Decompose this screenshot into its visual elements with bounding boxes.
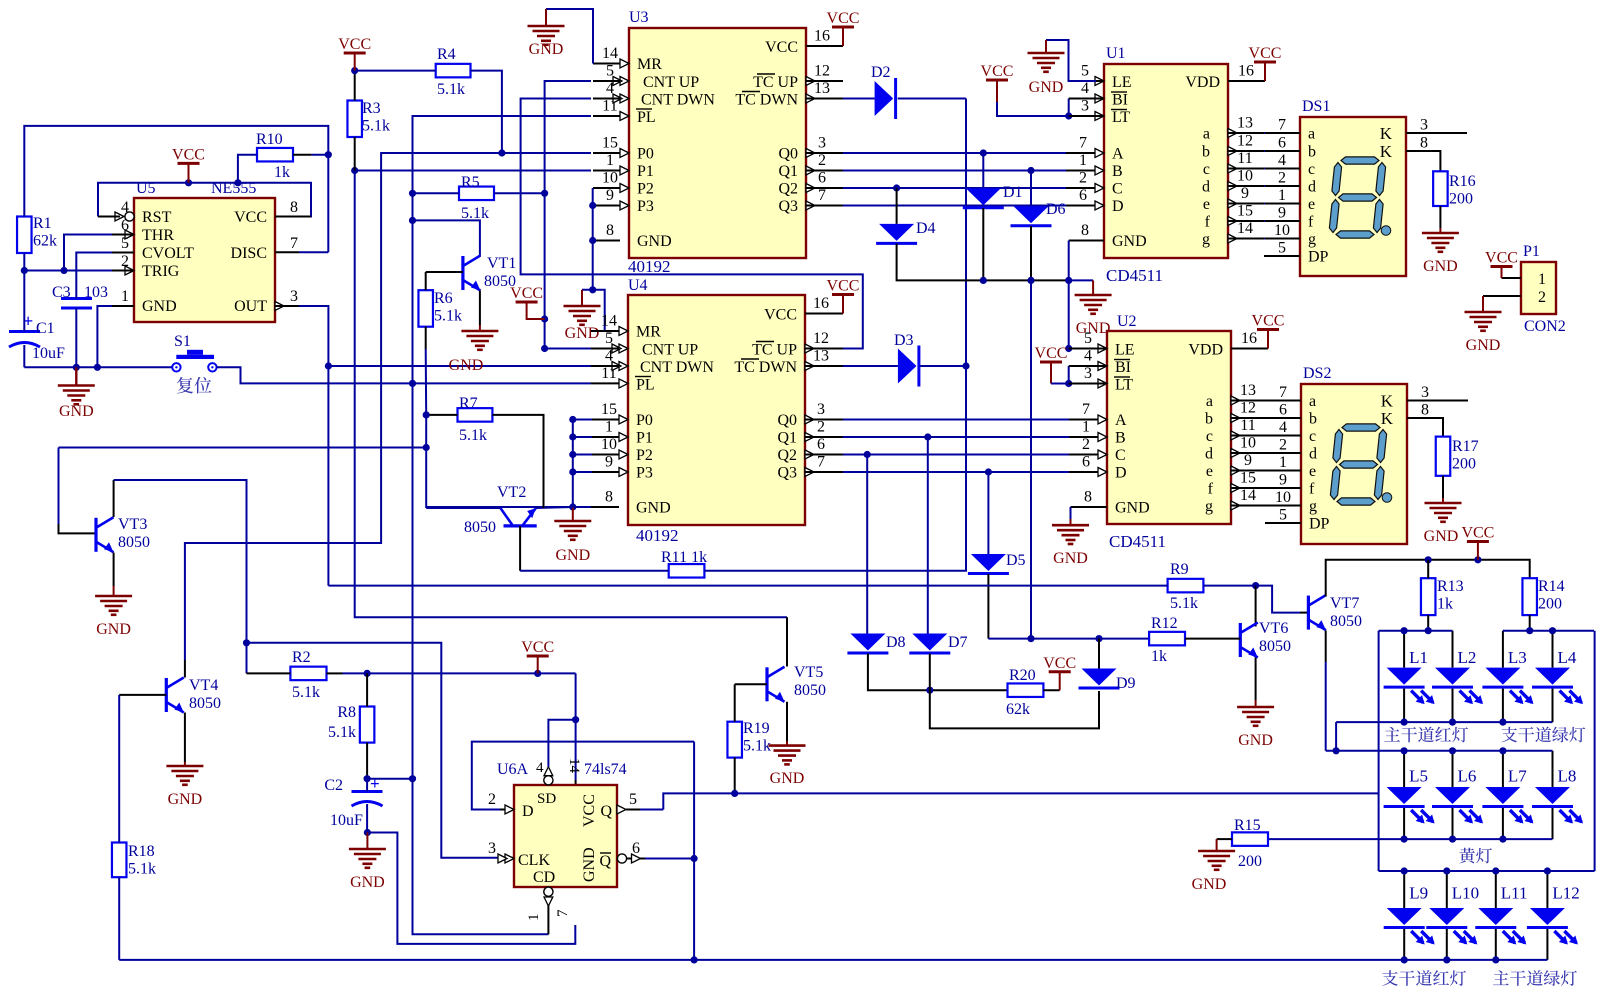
svg-text:3: 3 [1084, 365, 1092, 382]
svg-text:L9: L9 [1409, 884, 1428, 903]
svg-text:6: 6 [1278, 135, 1286, 152]
wire U3 VCC stub [806, 45, 843, 47]
wire U3 P1 stub [593, 170, 620, 172]
wire R3 bottom [354, 137, 356, 171]
svg-text:D8: D8 [886, 634, 906, 651]
svg-text:A: A [1115, 412, 1127, 429]
svg-text:D7: D7 [948, 634, 968, 651]
label zhugandao lvdeng [1493, 970, 1577, 986]
wire R19 bottom [734, 758, 736, 794]
resistor R7 [458, 395, 493, 444]
wire VT3 base vertical [58, 448, 60, 525]
ground GND VT1 [461, 331, 498, 350]
wire VCC8 stub [275, 216, 311, 218]
wire R9 to VT6 [1203, 585, 1255, 587]
node Qbar [691, 855, 698, 862]
wire R6 bottom [425, 327, 427, 349]
wire R12 to VT6 base [1185, 638, 1240, 640]
svg-text:VT2: VT2 [497, 484, 526, 501]
power VCC R20 [1043, 655, 1076, 690]
svg-text:VT6: VT6 [1259, 620, 1288, 637]
svg-text:4: 4 [536, 760, 544, 776]
flip-flop U6A 74ls74 body [514, 785, 617, 887]
svg-text:3: 3 [817, 401, 825, 418]
ground stem P1 [1482, 296, 1484, 312]
LED L12 [1527, 871, 1580, 960]
node R6-R7 [423, 411, 430, 418]
ground GND below U2 [1052, 525, 1089, 544]
wire row1 anode bus right [1503, 630, 1594, 632]
wire R2 left [247, 672, 291, 674]
svg-text:2: 2 [1278, 170, 1286, 187]
decoder U1 CD4511 body [1104, 64, 1228, 258]
svg-text:15: 15 [601, 401, 617, 418]
ground stem VT5 [786, 741, 788, 746]
svg-text:e: e [1206, 463, 1213, 480]
node R5 right [541, 190, 548, 197]
wire R20 right [1043, 689, 1059, 691]
node VCC stem junction [185, 179, 192, 186]
transistor VT7 [1308, 595, 1326, 630]
wire R10 right blue [311, 154, 328, 156]
wire R2 to VCC line [343, 672, 576, 674]
wire D5 anode [987, 472, 989, 554]
svg-text:9: 9 [606, 187, 614, 204]
svg-text:VCC: VCC [1461, 525, 1494, 542]
svg-text:14: 14 [601, 313, 617, 330]
svg-text:VCC: VCC [1485, 250, 1518, 267]
svg-text:a: a [1309, 393, 1316, 410]
wire D loop top [472, 742, 694, 810]
svg-text:5.1k: 5.1k [434, 308, 462, 325]
U3 pin names [636, 39, 798, 250]
wire U3 P2 stub [593, 187, 620, 189]
ground stem C2 [366, 833, 368, 850]
wire DS1 DP stub [1264, 255, 1300, 257]
svg-text:c: c [1309, 428, 1316, 445]
wire U5 top rail [98, 183, 311, 217]
svg-text:9: 9 [1244, 452, 1252, 469]
svg-text:GND: GND [168, 791, 203, 808]
transistor VT1 [463, 256, 481, 291]
svg-text:VT7: VT7 [1330, 595, 1359, 612]
LED L11 [1475, 871, 1527, 960]
svg-text:f: f [1208, 481, 1214, 498]
wire U3 GND stub [593, 240, 620, 242]
svg-text:U3: U3 [629, 9, 649, 26]
ground GND below U1 [1075, 295, 1112, 314]
wire C2gnd to U6 pin7 [367, 833, 575, 944]
svg-text:200: 200 [1452, 456, 1476, 473]
svg-text:GND: GND [1053, 550, 1088, 567]
wire R5 left [413, 192, 460, 194]
svg-text:L4: L4 [1558, 648, 1577, 667]
wire D stub [500, 809, 514, 811]
svg-text:D9: D9 [1116, 675, 1136, 692]
wire U4 Q1-B stub [805, 436, 843, 438]
wire U3 preset vertical [592, 188, 594, 290]
svg-text:10: 10 [1275, 489, 1291, 506]
wire CVOLT stub [112, 252, 134, 254]
node L1 cathode [1401, 719, 1408, 726]
U6A labels [497, 761, 627, 778]
wire VT7 base stub [1300, 612, 1308, 614]
node D5 tap [985, 468, 992, 475]
node R13 bottom [1425, 627, 1432, 634]
svg-text:D6: D6 [1046, 201, 1066, 218]
R8 label [328, 704, 356, 741]
svg-text:P1: P1 [1523, 243, 1540, 260]
display DS1 body [1300, 117, 1406, 276]
wire row2 anode bus [1326, 750, 1553, 752]
wire D6 anode [1030, 171, 1032, 207]
node gndbus-D6 [1027, 277, 1034, 284]
svg-text:5.1k: 5.1k [328, 724, 356, 741]
svg-text:TC UP: TC UP [753, 74, 798, 91]
svg-text:GND: GND [555, 547, 590, 564]
svg-text:2: 2 [1538, 289, 1546, 306]
svg-text:Q: Q [600, 803, 612, 820]
ground GND R16 [1422, 233, 1459, 252]
svg-text:1: 1 [1079, 152, 1087, 169]
DS2 pin numbers [1275, 384, 1429, 524]
wire U3 P0 stub [593, 152, 620, 154]
wire R7 right [492, 415, 543, 508]
capacitor C1 [9, 311, 65, 362]
svg-text:R10: R10 [256, 131, 283, 148]
U2 pin arrows [1098, 344, 1240, 510]
wire VT6 emitter [1255, 658, 1257, 701]
power VCC U2 BI-LT [1035, 345, 1068, 384]
diode D6 [1011, 201, 1066, 226]
ground GND above U1 [1028, 53, 1065, 72]
svg-text:GND: GND [637, 233, 672, 250]
wire bus Q0-A [843, 152, 1066, 154]
svg-text:R12: R12 [1151, 615, 1178, 632]
svg-text:R5: R5 [461, 174, 480, 191]
transistor VT2 [501, 508, 537, 526]
svg-text:b: b [1205, 411, 1213, 428]
wire VT4 collector [184, 660, 186, 678]
LED L3 [1482, 631, 1533, 722]
wire R6R7 vertical lower [425, 415, 427, 508]
wire VT7 base link [1256, 586, 1300, 613]
svg-text:a: a [1308, 126, 1315, 143]
diode D5 [968, 552, 1026, 574]
U1 labels [1106, 45, 1163, 285]
wire U4 P0 link [573, 419, 592, 421]
svg-text:D: D [1115, 465, 1127, 482]
svg-text:7: 7 [817, 454, 825, 471]
svg-text:g: g [1202, 231, 1210, 248]
node U4 P1 [569, 433, 576, 440]
wire OUT to U4 CNT DWN [328, 365, 591, 367]
wire LED frame left [1378, 631, 1380, 871]
wire U4 VCC stub [805, 313, 843, 315]
node U4 gnd junction [569, 503, 576, 510]
wire Qbar net [645, 858, 694, 860]
svg-text:5: 5 [629, 791, 637, 808]
svg-text:8: 8 [1420, 135, 1428, 152]
svg-text:GND: GND [96, 621, 131, 638]
wire U3 PL stub [593, 115, 620, 117]
diode D3 [894, 332, 919, 387]
svg-text:16: 16 [1241, 330, 1257, 347]
wire DISC stub black [275, 251, 299, 253]
wire CNTDWN to U4 TCUP [521, 99, 863, 349]
diode D7 [909, 634, 967, 654]
svg-text:P0: P0 [636, 412, 653, 429]
wire P1 pin2 stub [1483, 295, 1521, 297]
svg-text:3: 3 [488, 840, 496, 857]
svg-text:b: b [1308, 144, 1316, 161]
svg-text:1k: 1k [1437, 596, 1453, 613]
svg-text:13: 13 [814, 80, 830, 97]
wire U2 Q3-D stub [1069, 471, 1107, 473]
wire Qbar stub [627, 858, 645, 860]
ground stem bottom-left [75, 367, 77, 385]
node Qbar net-bus [691, 956, 698, 963]
display DS2 body [1301, 384, 1407, 544]
svg-text:8: 8 [1084, 489, 1092, 506]
svg-text:1: 1 [121, 288, 129, 305]
resistor R11 [669, 564, 705, 578]
node D7 tap [924, 433, 931, 440]
svg-text:9: 9 [1241, 185, 1249, 202]
wire U4 P2 link [573, 454, 592, 456]
wire U4 Q2-C stub [805, 454, 843, 456]
svg-text:BI: BI [1112, 92, 1128, 109]
power VCC above U5 [172, 146, 205, 182]
node L1 anode [1401, 627, 1408, 634]
node row3 anode [1401, 867, 1408, 874]
svg-text:C1: C1 [36, 320, 55, 337]
wire D2 cathode to carry [898, 98, 966, 100]
svg-text:5: 5 [1081, 63, 1089, 80]
ground GND C2 [349, 849, 386, 868]
svg-text:1: 1 [526, 914, 542, 922]
wire VT3 base net [59, 447, 427, 449]
wire U2 Q2-C stub [1069, 454, 1107, 456]
LED L7 [1482, 751, 1533, 839]
svg-text:P3: P3 [637, 198, 654, 215]
wire U2 BI jog [1068, 366, 1070, 384]
svg-text:C3: C3 [52, 284, 71, 301]
wire C1 top [23, 271, 25, 332]
svg-text:8050: 8050 [1259, 638, 1291, 655]
svg-text:2: 2 [1082, 436, 1090, 453]
counter U3 40192 body [629, 28, 806, 258]
ground stem U2 [1070, 519, 1072, 525]
wire U4 TCDWN stub [805, 365, 843, 367]
DS2 decimal point [1382, 493, 1392, 503]
node THR tap [60, 267, 67, 274]
LED L10 [1426, 871, 1479, 960]
ground stem VT4 [184, 762, 186, 766]
svg-text:L12: L12 [1552, 884, 1579, 903]
U4 pin arrows [612, 327, 814, 477]
wire R16 bottom [1439, 206, 1441, 228]
node row2 anode [1449, 747, 1456, 754]
svg-text:10: 10 [1274, 222, 1290, 239]
node D4 tap [893, 184, 900, 191]
svg-text:A: A [1112, 146, 1124, 163]
wire U1 Q0-A stub [1066, 152, 1104, 154]
wire C2 bottom [366, 804, 368, 833]
DS2 pin names [1309, 392, 1394, 533]
U3 pin arrows [613, 59, 815, 210]
svg-text:2: 2 [1079, 170, 1087, 187]
node C2 gnd [364, 829, 371, 836]
resistor R13 [1421, 578, 1464, 615]
svg-text:GND: GND [1076, 320, 1111, 337]
wire Q line [663, 793, 1378, 809]
wire VT3 collector [114, 480, 247, 673]
power VCC top-left [338, 36, 371, 71]
node R10 drop junction [234, 179, 241, 186]
connector P1 CON2 body [1521, 262, 1556, 314]
ground GND bottom-left [58, 386, 95, 405]
node preset-gnd T [589, 286, 596, 293]
node R9-VT6-VT7 [1252, 582, 1259, 589]
U6A pin numbers [488, 758, 640, 921]
svg-text:L11: L11 [1501, 884, 1528, 903]
svg-text:MR: MR [637, 56, 662, 73]
svg-text:12: 12 [1237, 133, 1253, 150]
svg-text:10: 10 [1240, 435, 1256, 452]
node gndbus-D1 [980, 277, 987, 284]
wire TCDWN to D2 [843, 98, 875, 100]
svg-text:6: 6 [1082, 454, 1090, 471]
svg-text:L2: L2 [1458, 648, 1477, 667]
svg-text:1: 1 [1538, 271, 1546, 288]
resistor R4 [436, 46, 471, 98]
svg-text:11: 11 [1240, 417, 1255, 434]
svg-text:e: e [1309, 463, 1316, 480]
node OUT to CNTDWN [325, 362, 332, 369]
capacitor C2 [324, 774, 382, 829]
wire U3 CNTUP stub [593, 80, 620, 82]
node VT3base line tap [423, 444, 430, 451]
svg-text:4: 4 [1084, 348, 1092, 365]
svg-text:14: 14 [1237, 220, 1253, 237]
U3 pin numbers [602, 28, 830, 240]
ground GND VT5 [769, 746, 806, 765]
svg-text:R18: R18 [128, 843, 155, 860]
node row2 anode [1499, 747, 1506, 754]
resistor R12 [1149, 615, 1185, 665]
svg-text:VCC: VCC [764, 307, 797, 324]
wire R13 bottom [1427, 615, 1429, 631]
power VCC U1 VDD [1249, 45, 1282, 81]
svg-text:R2: R2 [292, 649, 311, 666]
svg-text:CVOLT: CVOLT [142, 245, 194, 262]
ground stem U4 [572, 507, 574, 521]
transistor VT5 [767, 667, 785, 702]
resistor R2 [290, 649, 326, 701]
U5 labels [136, 180, 256, 197]
wire THR link [64, 235, 112, 271]
svg-text:8050: 8050 [1330, 613, 1362, 630]
wire R17 bottom [1442, 476, 1444, 498]
svg-text:5.1k: 5.1k [362, 118, 390, 135]
wire U2 GND stub [1071, 506, 1108, 508]
svg-text:CLK: CLK [518, 852, 550, 869]
svg-text:1: 1 [1278, 187, 1286, 204]
wire R14 bottom [1529, 615, 1531, 631]
node PL net tap [409, 380, 416, 387]
wire VT1 base [426, 271, 463, 273]
capacitor C3 [52, 284, 108, 308]
svg-text:4: 4 [1279, 419, 1287, 436]
svg-text:6: 6 [817, 436, 825, 453]
wire U4 GND line [426, 506, 591, 508]
svg-text:DS1: DS1 [1302, 98, 1330, 115]
svg-text:VCC: VCC [234, 209, 267, 226]
wire row2 cathode bus [1268, 838, 1553, 840]
wire U1 Q2-C stub [1066, 187, 1104, 189]
resistor R19 [727, 720, 771, 758]
DS1 digit eight [1329, 157, 1385, 238]
wire U3 Q0-A stub [806, 152, 843, 154]
label huangdeng [1459, 848, 1492, 864]
svg-text:TC UP: TC UP [752, 342, 797, 359]
wire U1 to DS1 links [1264, 133, 1265, 239]
node row2 cathode [1449, 836, 1456, 843]
wire U1 VDD stub [1228, 80, 1265, 82]
svg-text:R8: R8 [337, 704, 356, 721]
wire D6 net down to R12 [1030, 280, 1032, 638]
svg-text:10uF: 10uF [32, 345, 65, 362]
wire U1 GND stub [1069, 240, 1104, 242]
transistor VT6 [1240, 623, 1258, 658]
wire U3 Q3-D stub [806, 205, 843, 207]
svg-text:CD4511: CD4511 [1109, 532, 1166, 551]
svg-text:Q: Q [599, 853, 611, 870]
wire U1 a-g stubs [1228, 133, 1264, 239]
svg-text:13: 13 [1237, 115, 1253, 132]
wire VT2 emitter link [536, 507, 573, 508]
wire VT5 collector [786, 617, 788, 666]
svg-text:R20: R20 [1009, 667, 1036, 684]
svg-text:CON2: CON2 [1524, 318, 1566, 335]
wire R6 to R7 vertical [425, 349, 428, 415]
svg-text:R6: R6 [434, 290, 453, 307]
wire P0 net [185, 153, 591, 660]
power VCC U2 VDD [1252, 313, 1285, 349]
wire U6 pin14 stub [575, 780, 577, 785]
wire U1 Q3-D stub [1066, 205, 1104, 207]
svg-text:10: 10 [1237, 168, 1253, 185]
svg-text:VCC: VCC [521, 639, 554, 656]
op-amp U5 NE555 body [134, 198, 275, 322]
svg-text:14: 14 [566, 758, 582, 774]
svg-text:+: + [370, 774, 380, 793]
wire bus Q3-D [843, 205, 1066, 207]
svg-text:12: 12 [813, 330, 829, 347]
node VCC tap CNTUP [541, 315, 548, 322]
svg-text:200: 200 [1538, 596, 1562, 613]
svg-text:CD4511: CD4511 [1106, 266, 1163, 285]
svg-text:1: 1 [1279, 454, 1287, 471]
node R12-D9 [1095, 635, 1102, 642]
wire C2 top [366, 779, 368, 792]
wire D8 anode [866, 455, 868, 634]
svg-text:e: e [1203, 196, 1210, 213]
node R8-C2 [364, 775, 371, 782]
svg-text:CNT DWN: CNT DWN [640, 359, 714, 376]
node L10 cathode [1443, 956, 1450, 963]
